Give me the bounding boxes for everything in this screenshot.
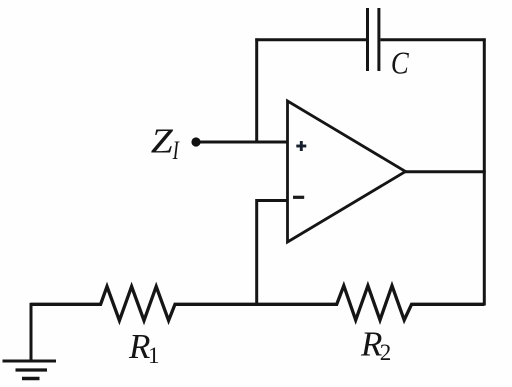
svg-text:C: C [391, 47, 409, 81]
svg-text:2: 2 [380, 340, 392, 365]
svg-text:I: I [172, 136, 180, 165]
svg-text:Z: Z [151, 123, 174, 161]
svg-text:1: 1 [148, 343, 160, 368]
